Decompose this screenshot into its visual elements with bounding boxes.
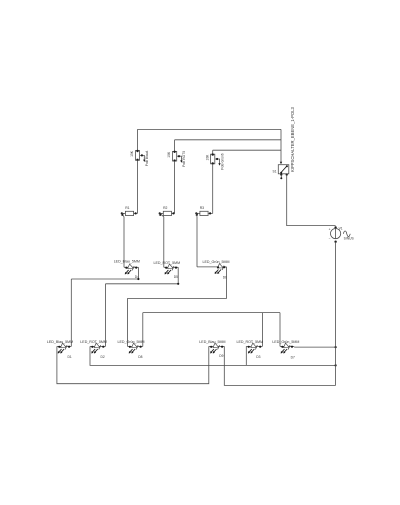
wire blue series bus bbox=[57, 346, 209, 383]
wire R3 jog bbox=[195, 213, 198, 217]
LED D5 designator bbox=[174, 275, 178, 279]
LED D6 designator bbox=[223, 276, 227, 280]
wire pot3 to R3 bbox=[212, 164, 214, 214]
svg-text:−: − bbox=[329, 236, 331, 240]
svg-text:D1: D1 bbox=[68, 355, 72, 359]
wire R2 jog bbox=[159, 213, 164, 217]
resistor R2 bbox=[159, 206, 175, 215]
wire R2 to D5 bbox=[163, 217, 165, 267]
wire bus 2 bbox=[143, 312, 280, 314]
wire red bus bbox=[90, 346, 337, 366]
LED D6 label bbox=[203, 260, 230, 264]
LED D2 (LED_ROT_5MM) bbox=[90, 343, 106, 353]
LED D4 (LED_Blau_5MM) bbox=[124, 264, 138, 274]
LED D7 (LED_Grün_5MM) bbox=[280, 343, 294, 353]
wire bus A (pot1 to switch) bbox=[138, 128, 282, 130]
LED D9 (LED_Blau_5MM) bbox=[209, 343, 225, 353]
svg-text:D3: D3 bbox=[256, 355, 260, 359]
svg-text:D8: D8 bbox=[138, 355, 142, 359]
switch S1 feed arrow bbox=[280, 162, 282, 164]
LED D7 designator bbox=[291, 355, 295, 359]
wire to bottom blue LED D1 bbox=[70, 279, 72, 346]
wire pot2 top feed bbox=[174, 140, 176, 152]
wire S1 to V1 bbox=[287, 175, 336, 226]
wire bus C (pot3 to switch) bbox=[213, 149, 281, 151]
svg-text:LED_Grün_5MM: LED_Grün_5MM bbox=[118, 340, 145, 344]
wire R1 jog bbox=[121, 213, 124, 217]
wire D5 cathode down-left bbox=[106, 267, 180, 285]
svg-text:D5: D5 bbox=[174, 275, 178, 279]
LED D1 label bbox=[47, 340, 73, 344]
LED D8 designator bbox=[138, 355, 142, 359]
wire bus2 to D7 left pin bbox=[279, 313, 281, 347]
resistor R3 bbox=[195, 206, 213, 215]
svg-text:LED_ROT_5MM: LED_ROT_5MM bbox=[154, 261, 181, 265]
wire D4 cathode down-left bbox=[71, 267, 139, 280]
node V1 label bbox=[339, 227, 343, 231]
wire bus2 to D8 right pin bbox=[142, 313, 144, 347]
wire V1 negative vertical bbox=[335, 242, 337, 386]
svg-text:D9: D9 bbox=[219, 354, 223, 358]
svg-text:LED_ROT_5MM: LED_ROT_5MM bbox=[237, 340, 264, 344]
svg-text:R1: R1 bbox=[125, 206, 129, 210]
LED D3 (LED_ROT_5MM) bbox=[246, 343, 262, 353]
svg-text:10K: 10K bbox=[167, 151, 171, 158]
LED D4 label bbox=[114, 260, 140, 264]
switch S1 name label bbox=[290, 106, 295, 172]
wire to bottom green LED D8 bbox=[127, 298, 129, 346]
LED D2 designator bbox=[101, 355, 105, 359]
wire blue return to battery bbox=[224, 346, 335, 385]
wire switch feed vertical bbox=[280, 129, 282, 163]
svg-text:10K: 10K bbox=[205, 154, 209, 161]
LED D3 label bbox=[237, 340, 264, 344]
svg-text:10K: 10K bbox=[130, 150, 134, 157]
LED D1 designator bbox=[68, 355, 72, 359]
svg-text:PoB ROT5: PoB ROT5 bbox=[182, 151, 186, 167]
voltage source V1 bbox=[329, 226, 351, 243]
svg-text:SINUS: SINUS bbox=[344, 237, 355, 241]
wire pot1 to R1 bbox=[137, 160, 139, 213]
svg-text:LED_Grün_5MM: LED_Grün_5MM bbox=[203, 260, 230, 264]
potentiometer 10K PoB Blau4 bbox=[130, 150, 149, 166]
LED D2 label bbox=[80, 340, 107, 344]
resistor R1 bbox=[121, 206, 138, 215]
switch S1 (KIPPSCHALTER) bbox=[278, 165, 289, 180]
LED D3 designator bbox=[256, 355, 260, 359]
svg-text:V1: V1 bbox=[339, 227, 343, 231]
svg-text:S1: S1 bbox=[273, 169, 277, 173]
wire pot2 to R2 bbox=[174, 161, 176, 213]
svg-text:R2: R2 bbox=[163, 206, 167, 210]
svg-text:R3: R3 bbox=[200, 206, 204, 210]
LED D9 label bbox=[199, 340, 225, 344]
wire D7 to battery bbox=[294, 346, 337, 348]
LED D5 label bbox=[154, 261, 181, 265]
wire pot1 top feed bbox=[137, 129, 139, 150]
switch S1 designator bbox=[273, 169, 277, 173]
svg-text:+: + bbox=[329, 228, 331, 232]
potentiometer 10K PoB ROT5 bbox=[167, 151, 186, 167]
svg-text:PoB Grün6: PoB Grün6 bbox=[220, 153, 224, 169]
svg-text:LED_Blau_5MM: LED_Blau_5MM bbox=[47, 340, 73, 344]
LED D4 designator bbox=[135, 275, 139, 279]
LED D6 (LED_Grün_5MM) bbox=[215, 264, 227, 274]
wire R1 to D4 bbox=[123, 217, 125, 267]
wire red bus to D3 left pin bbox=[245, 346, 247, 365]
LED D7 label bbox=[272, 340, 299, 344]
svg-text:KIPPSCHALTER_EBENE_1-POL3: KIPPSCHALTER_EBENE_1-POL3 bbox=[290, 106, 295, 172]
wire R3 to D6 bbox=[197, 217, 216, 267]
svg-text:LED_Blau_5MM: LED_Blau_5MM bbox=[114, 260, 140, 264]
node V1 value label bbox=[344, 237, 355, 241]
LED D1 (LED_Blau_5MM) bbox=[57, 343, 71, 353]
wire D6 cathode down-left bbox=[128, 267, 227, 299]
svg-text:D2: D2 bbox=[101, 355, 105, 359]
wire bus2 to D3 right pin bbox=[261, 313, 263, 347]
svg-text:D7: D7 bbox=[291, 355, 295, 359]
wire to bottom red LED D2 bbox=[105, 284, 107, 347]
wire pot3 top feed bbox=[212, 150, 214, 154]
wire bus B (pot2 to switch) bbox=[175, 139, 281, 141]
LED D5 (LED_ROT_5MM) bbox=[164, 264, 178, 274]
svg-text:PoB Blau4: PoB Blau4 bbox=[145, 150, 149, 166]
svg-text:LED_Blau_5MM: LED_Blau_5MM bbox=[199, 340, 225, 344]
svg-text:LED_ROT_5MM: LED_ROT_5MM bbox=[80, 340, 107, 344]
LED D9 designator bbox=[219, 354, 223, 358]
LED D8 label bbox=[118, 340, 145, 344]
potentiometer 10K PoB Gruen6 bbox=[205, 153, 224, 169]
LED D8 (LED_Grün_5MM) bbox=[128, 343, 143, 353]
